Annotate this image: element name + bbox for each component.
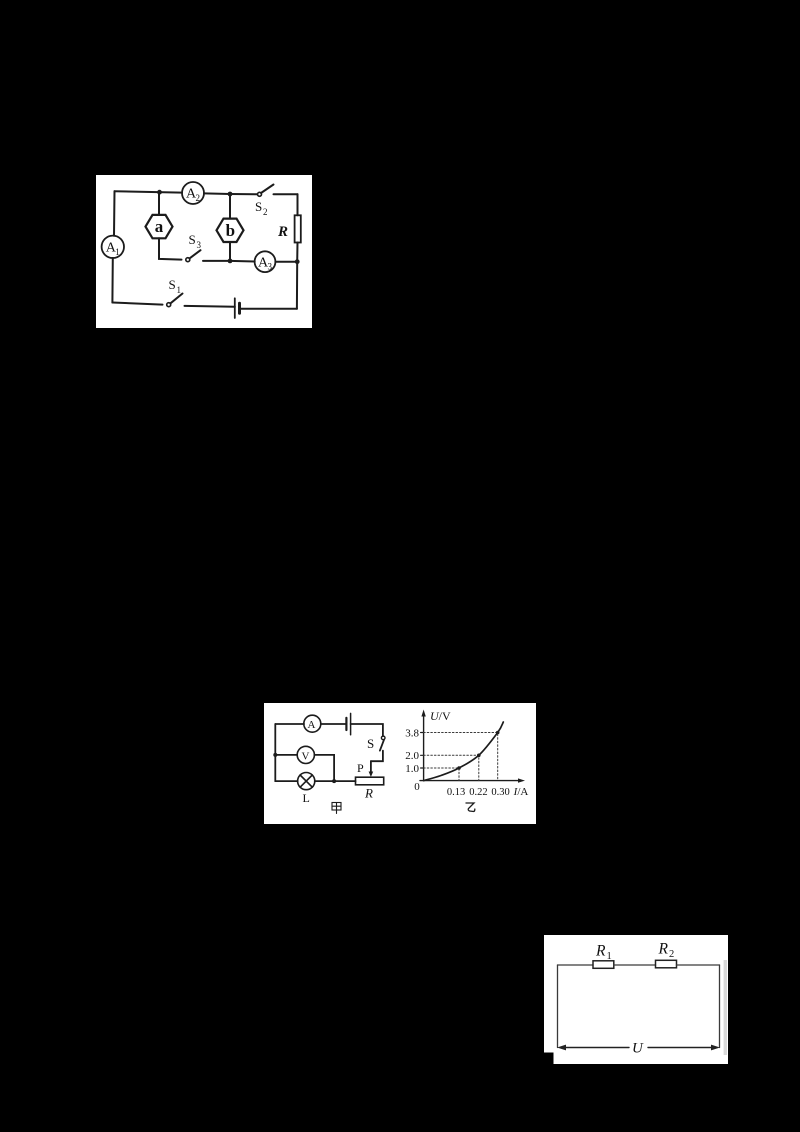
x tick label 0.30: [491, 787, 509, 798]
data point (0.13,1.0): [457, 766, 461, 770]
U arrow left segment: [557, 1045, 629, 1051]
wire left side: [274, 724, 276, 781]
wire V row left: [275, 754, 297, 756]
data point (0.30,3.8): [496, 731, 500, 735]
wire A to battery: [321, 723, 347, 725]
wire top-left segment: [115, 191, 183, 192]
wire A2 to node: [204, 192, 230, 195]
figure 3: series resistors with source U: [544, 935, 728, 1064]
figure 1: three-ammeter circuit: [96, 175, 312, 328]
U arrow right segment: [648, 1045, 720, 1051]
switch S1: [167, 277, 183, 307]
svg-text:L: L: [303, 791, 310, 805]
svg-text:R: R: [277, 224, 288, 240]
wire b bottom stem: [229, 242, 231, 261]
wire left side lower: [111, 258, 113, 303]
y tick 1.0: [405, 763, 423, 775]
wire left side upper: [113, 191, 116, 236]
figure 2: lamp measurement circuit (jia) with U-I graph (yi): [264, 703, 536, 824]
ammeter A2: [182, 182, 204, 204]
wire a bottom stem: [159, 238, 182, 259]
wire between resistors: [614, 964, 656, 966]
scrollbar artifact: [724, 960, 727, 1055]
svg-text:1: 1: [115, 247, 120, 257]
ammeter A1: [102, 236, 124, 258]
slider P arrow: [357, 761, 373, 777]
svg-text:I/A: I/A: [513, 786, 529, 798]
svg-text:2.0: 2.0: [405, 750, 419, 762]
voltmeter V: [297, 746, 314, 763]
svg-text:1: 1: [607, 951, 612, 962]
switch S3: [186, 232, 202, 262]
svg-text:1: 1: [177, 285, 182, 295]
element b (hexagon): [217, 219, 244, 242]
y tick 3.8: [405, 727, 423, 739]
svg-text:b: b: [226, 221, 235, 240]
svg-text:3.8: 3.8: [405, 727, 419, 739]
ammeter A: [304, 715, 321, 732]
lamp L: [298, 773, 315, 806]
label U: [632, 1041, 644, 1057]
dashed guide 1.0: [424, 768, 459, 781]
svg-text:0.30: 0.30: [491, 787, 509, 798]
U-I curve: [424, 722, 504, 781]
wire lamp row left: [275, 780, 297, 782]
label yi (Chinese): [466, 803, 475, 812]
wire left side: [557, 965, 559, 1048]
svg-text:S: S: [367, 736, 374, 751]
wire a top stem: [158, 192, 160, 215]
wire battery to bottom-right corner: [240, 308, 297, 310]
svg-text:S: S: [189, 232, 196, 247]
svg-text:a: a: [155, 217, 164, 236]
svg-text:A: A: [308, 719, 316, 731]
x tick label 0.22: [469, 787, 487, 798]
label jia (Chinese): [332, 803, 341, 814]
battery: [235, 298, 240, 318]
rheostat R: [356, 777, 384, 800]
svg-text:0: 0: [414, 781, 420, 793]
svg-text:1.0: 1.0: [405, 763, 419, 775]
axis label I/A: [513, 786, 529, 798]
svg-text:3: 3: [268, 262, 273, 272]
wire bottom-left to S1: [112, 303, 162, 305]
wire right side lower: [296, 262, 298, 309]
svg-text:V: V: [302, 750, 310, 762]
wire node to S2: [230, 193, 257, 195]
ammeter A3: [255, 251, 276, 272]
graph x-axis: [420, 778, 525, 782]
svg-text:S: S: [255, 199, 262, 214]
resistor R2: [656, 941, 677, 968]
resistor R1: [593, 943, 614, 969]
svg-text:2: 2: [669, 949, 674, 960]
battery: [346, 713, 350, 734]
wire switch to slider arm: [371, 751, 383, 762]
dashed guide 3.8: [424, 733, 498, 781]
svg-text:U: U: [632, 1041, 644, 1057]
element a (hexagon): [146, 215, 173, 238]
svg-text:R: R: [595, 943, 606, 960]
origin 0: [414, 781, 420, 793]
data point (0.22,2.0): [477, 754, 481, 758]
svg-text:R: R: [658, 941, 669, 958]
graph y-axis: [421, 710, 425, 781]
switch S: [367, 736, 385, 751]
wire b top stem: [229, 194, 231, 219]
svg-text:2: 2: [196, 193, 201, 203]
svg-text:3: 3: [197, 240, 202, 250]
wire right side: [719, 965, 721, 1048]
wire S1 to battery: [185, 305, 235, 308]
svg-text:0.13: 0.13: [447, 787, 465, 798]
y tick 2.0: [405, 750, 423, 762]
wire R to node A3-right: [296, 243, 298, 262]
node junction right middle: [295, 259, 300, 264]
wire lamp to rheostat: [315, 780, 356, 782]
resistor R: [277, 215, 301, 242]
node junction lamp row: [332, 779, 336, 783]
x tick label 0.13: [447, 787, 465, 798]
wire node to A3: [230, 260, 255, 263]
wire V to right corner and down: [314, 755, 334, 781]
svg-text:0.22: 0.22: [469, 787, 487, 798]
svg-text:R: R: [364, 786, 373, 801]
wire top-right: [677, 964, 720, 966]
node junction (a stem on top wire): [157, 190, 162, 195]
wire top-left: [558, 964, 594, 966]
wire battery to top-right corner: [351, 724, 383, 736]
wire S3 to node under b: [203, 260, 230, 262]
axis label U/V: [430, 709, 451, 723]
wire right side upper: [297, 194, 299, 215]
node junction (b stem on top wire): [228, 192, 233, 197]
dashed guide 2.0: [424, 755, 479, 780]
svg-text:P: P: [357, 761, 364, 775]
svg-text:U/V: U/V: [430, 709, 451, 723]
black notch bottom-left: [544, 1053, 554, 1065]
wire S2 to top-right corner: [274, 193, 298, 195]
node junction left: [273, 753, 277, 757]
svg-text:2: 2: [263, 207, 268, 217]
wire top row left: [275, 723, 304, 725]
switch S2: [255, 185, 274, 218]
node junction under b: [228, 259, 233, 264]
wire A3 to right node: [275, 261, 297, 263]
svg-text:S: S: [169, 277, 176, 292]
